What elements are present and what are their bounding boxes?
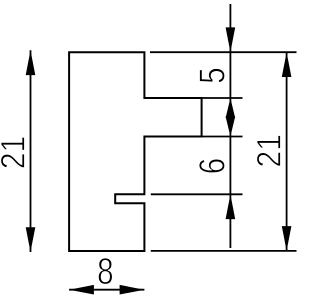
svg-text:21: 21 xyxy=(0,136,32,169)
svg-text:8: 8 xyxy=(97,252,113,293)
svg-text:5: 5 xyxy=(192,67,232,83)
svg-text:21: 21 xyxy=(250,134,288,167)
svg-text:6: 6 xyxy=(192,158,232,174)
